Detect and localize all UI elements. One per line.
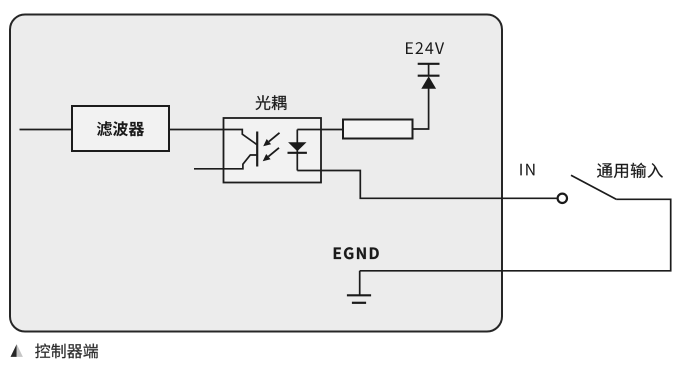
light arrow 1	[263, 133, 279, 147]
label 滤波器 (filter)	[97, 121, 144, 136]
node IN terminal circle	[558, 194, 567, 203]
ground EGND symbol bar 2	[352, 302, 366, 304]
caption marker triangle	[11, 344, 23, 357]
phototransistor Q1 base bar	[256, 132, 258, 167]
wire: resistor R1 to E24V diode	[413, 88, 429, 129]
resistor R1	[343, 120, 413, 139]
label 通用输入 (general input)	[597, 163, 663, 178]
wire: ground leg	[359, 271, 361, 295]
label 控制器端 (controller side)	[35, 344, 98, 359]
wire: diode cathode to E24V rail	[428, 64, 430, 76]
optocoupler U1 box	[224, 118, 322, 183]
switch S1 blade	[571, 175, 616, 199]
wire: left input stub to filter	[20, 129, 73, 131]
light arrow 2	[263, 148, 279, 162]
diode V1 cathode bar	[418, 75, 440, 77]
phototransistor Q1 collector lead	[224, 130, 258, 145]
label EGND	[334, 247, 379, 259]
label IN	[520, 164, 534, 176]
label 光耦 (optocoupler)	[256, 95, 287, 110]
wire: LED cathode to IN terminal	[297, 171, 556, 199]
LED D1 vertical leads	[296, 130, 298, 171]
phototransistor Q1 emitter lead	[194, 155, 257, 169]
diode V1 triangle (to E24V rail)	[421, 76, 436, 89]
wire: LED anode to resistor R1	[297, 129, 343, 131]
ground EGND symbol bar 1	[347, 294, 371, 296]
LED D1 cathode bar	[288, 152, 307, 154]
wire: switch to return loop	[360, 199, 671, 270]
controller enclosure box	[10, 15, 502, 332]
label E24V	[406, 42, 444, 54]
LED D1 anode triangle	[288, 142, 306, 151]
filter block 滤波器	[72, 106, 169, 151]
E24V rail terminal bar	[418, 63, 440, 65]
wire: filter to optocoupler collector input	[169, 129, 224, 131]
